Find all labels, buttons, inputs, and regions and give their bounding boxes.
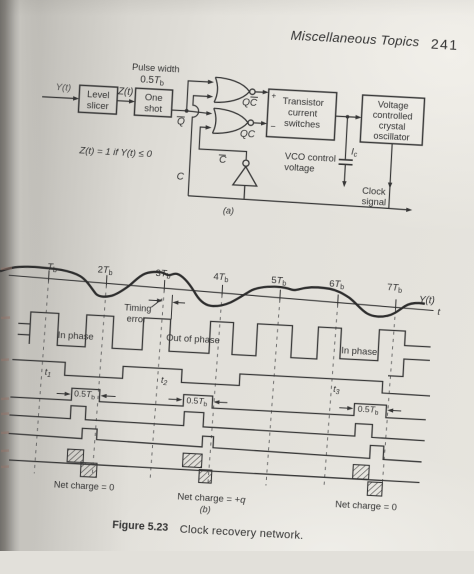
label pulse width 0.5Tb bbox=[131, 62, 180, 88]
label 0.5Tb pulse 3 with arrows bbox=[357, 404, 379, 417]
charge pulse group t2: up box bbox=[182, 453, 202, 467]
label QCbar bbox=[242, 97, 258, 110]
node control voltage junction bbox=[346, 115, 350, 119]
timing error callout bbox=[123, 302, 151, 324]
dashed grid lines at k*Tb bbox=[34, 280, 396, 492]
caption bbox=[112, 519, 304, 542]
waveform row5 QCbar pulses bbox=[9, 402, 425, 440]
node Cbar label bbox=[218, 155, 227, 166]
charge pulse group t1: up box bbox=[67, 449, 84, 463]
wire VCO output down to clock line bbox=[389, 144, 392, 208]
wire Qbar riser to NOR gate G1 input bbox=[187, 79, 214, 113]
charge pulse group t3: up box bbox=[353, 465, 370, 480]
wire switches to VCO bbox=[335, 114, 361, 120]
node Y(t) input label (faded) bbox=[55, 82, 71, 94]
charge pulse group t1: down box bbox=[80, 462, 97, 477]
axis tick marks bbox=[48, 270, 397, 311]
NOR gate G1 bbox=[214, 77, 256, 104]
capacitor C1 with current arrow bbox=[338, 116, 355, 183]
label VCO control voltage bbox=[284, 150, 336, 175]
grid labels Tb..7Tb bbox=[47, 262, 403, 295]
wire G1 output to transistor switches bbox=[255, 89, 269, 94]
wire C feedback with hop over Qbar wire bbox=[188, 96, 208, 197]
node Qbar label bbox=[176, 116, 185, 127]
waveform Y(t) curve bbox=[0, 264, 426, 319]
wire G2 output to transistor switches bbox=[253, 121, 267, 126]
wire Qbar from one shot to NOR gate G2 input bbox=[171, 109, 212, 116]
inverter U1 (triangle with bubble) bbox=[232, 159, 258, 199]
voltage controlled crystal oscillator block bbox=[360, 95, 424, 145]
axis t bbox=[8, 275, 434, 310]
waveform row3 clock C bbox=[12, 360, 431, 396]
header running title bbox=[290, 28, 459, 53]
wire clock feedback line bbox=[188, 196, 407, 210]
NOR gate G2 bbox=[212, 108, 254, 135]
label 0.5Tb pulse 1 with arrows bbox=[74, 388, 96, 401]
waveform row7 net charge line bbox=[9, 460, 419, 483]
waveform row2 Z(t) square wave bbox=[17, 311, 432, 378]
label 0.5Tb pulse 2 with arrows bbox=[186, 395, 208, 408]
junction dot Qbar node bbox=[185, 109, 189, 113]
transistor current switches block bbox=[266, 89, 336, 140]
one shot block bbox=[134, 88, 172, 117]
waveform row6 QC pulses bbox=[8, 424, 422, 461]
label clock signal bbox=[361, 185, 387, 208]
wire Cbar from inverter to G2 lower input bbox=[199, 127, 248, 160]
wire level slicer to one shot bbox=[117, 98, 135, 103]
wire input arrow bbox=[42, 95, 79, 101]
charge pulse group t2: down box bbox=[199, 469, 212, 483]
waveform row4 one-shot Q pulses bbox=[10, 385, 426, 420]
level slicer block bbox=[78, 85, 117, 114]
charge pulse group t3: down box bbox=[367, 482, 382, 496]
